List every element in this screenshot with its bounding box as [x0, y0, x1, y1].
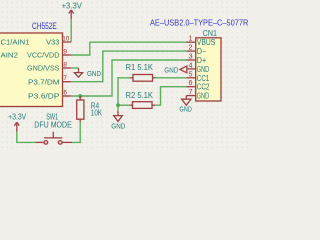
pin 9 stub — [63, 54, 71, 56]
CN1 pin 1 stub — [187, 41, 196, 43]
svg-text:GND: GND — [197, 65, 210, 74]
wire switch to +3.3V — [17, 132, 35, 143]
wire R1 right to CC1 — [156, 77, 187, 79]
ground symbol at pin 8 — [74, 68, 82, 77]
svg-text:CN1: CN1 — [203, 29, 217, 38]
switch SW1 — [35, 132, 72, 144]
svg-text:10: 10 — [62, 36, 70, 43]
pin 10 stub — [63, 41, 71, 43]
wire GND/VSS — [71, 67, 79, 69]
wire junction to ground — [117, 105, 119, 111]
ground symbol at CN1 pin 7 — [182, 96, 191, 106]
svg-text:GND: GND — [164, 65, 178, 74]
svg-text:CH552E: CH552E — [32, 21, 57, 31]
CN1 pin 6 stub — [187, 86, 196, 88]
svg-text:R2 5.1K: R2 5.1K — [126, 91, 154, 100]
ground symbol at CN1 pin 4 (pointing left) — [180, 66, 187, 73]
svg-text:GND/VSS: GND/VSS — [27, 64, 60, 73]
svg-text:D+: D+ — [197, 56, 207, 65]
svg-text:10K: 10K — [91, 109, 103, 118]
ground symbol below R1/R2 — [114, 111, 123, 121]
wire P3.6/DP to D+ — [71, 60, 187, 96]
CN1 pin 5 stub — [187, 77, 196, 79]
wire V33 to +3.3V — [70, 19, 72, 42]
CN1 pin 2 stub — [187, 50, 196, 52]
svg-text:6: 6 — [63, 90, 67, 97]
svg-text:AE–USB2.0–TYPE–C–5077R: AE–USB2.0–TYPE–C–5077R — [150, 18, 248, 28]
resistor R4 — [77, 96, 84, 122]
wire P3.7/DM to D- — [71, 51, 187, 82]
svg-text:GND: GND — [197, 92, 210, 101]
pin 7 stub — [63, 81, 71, 83]
svg-text:6: 6 — [189, 78, 193, 87]
svg-text:CC1: CC1 — [197, 74, 210, 83]
wire junction to R2 left — [118, 104, 130, 106]
wire R1 left to junction — [118, 78, 130, 105]
pin 6 stub — [63, 95, 71, 97]
junction node R1/R2/GND — [116, 103, 120, 107]
svg-text:7: 7 — [63, 75, 67, 82]
wire VCC/VDD to VBUS — [71, 42, 187, 55]
svg-text:V33: V33 — [46, 38, 60, 47]
svg-text:GND: GND — [87, 69, 101, 78]
svg-text:CC2: CC2 — [197, 83, 210, 92]
CN1 pin 7 stub — [187, 95, 196, 97]
svg-text:C1/AIN1: C1/AIN1 — [1, 38, 30, 47]
svg-text:9: 9 — [63, 49, 67, 56]
svg-text:5: 5 — [189, 69, 193, 78]
svg-text:D−: D− — [197, 47, 207, 56]
svg-text:1: 1 — [189, 34, 193, 43]
connector CN1 body — [196, 38, 221, 101]
svg-text:VCC/VDD: VCC/VDD — [27, 51, 60, 60]
junction node DP/R4 — [78, 94, 82, 98]
svg-text:VBUS: VBUS — [197, 38, 216, 47]
resistor R1 — [130, 75, 156, 82]
svg-text:GND: GND — [111, 122, 125, 131]
power +3.3V bottom arrow — [14, 122, 19, 131]
svg-text:P3.6/DP: P3.6/DP — [28, 92, 60, 101]
svg-text:3: 3 — [189, 52, 193, 61]
svg-text:4: 4 — [189, 60, 193, 69]
resistor R2 — [130, 102, 156, 109]
svg-text:R1 5.1K: R1 5.1K — [126, 63, 154, 72]
svg-text:+3.3V: +3.3V — [62, 1, 83, 10]
wire R4 bottom to switch — [72, 122, 80, 142]
svg-text:AIN2: AIN2 — [1, 51, 19, 60]
svg-text:2: 2 — [189, 43, 193, 52]
CN1 pin 3 stub — [187, 59, 196, 61]
svg-text:+3.3V: +3.3V — [8, 112, 26, 121]
wire R2 right to CC2 — [155, 87, 187, 106]
svg-text:7: 7 — [189, 87, 193, 96]
power +3.3V top arrow — [69, 10, 74, 19]
svg-text:DFU MODE: DFU MODE — [34, 120, 72, 129]
svg-text:P3.7/DM: P3.7/DM — [28, 77, 60, 86]
svg-text:8: 8 — [63, 62, 67, 69]
CN1 pin 4 stub — [187, 68, 196, 70]
svg-text:GND: GND — [179, 105, 192, 114]
IC CH552E body — [0, 33, 63, 107]
pin 8 stub — [63, 67, 71, 69]
